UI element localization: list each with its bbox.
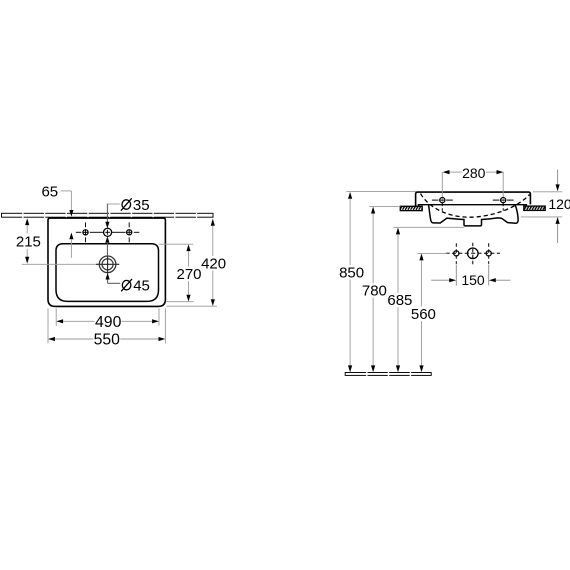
svg-text:490: 490 (95, 314, 122, 331)
svg-text:780: 780 (362, 283, 387, 300)
svg-text:850: 850 (339, 264, 364, 281)
svg-text:420: 420 (201, 256, 226, 273)
svg-text:120: 120 (548, 196, 570, 212)
svg-text:685: 685 (387, 292, 412, 309)
svg-text:560: 560 (411, 306, 436, 323)
svg-text:35: 35 (133, 197, 150, 214)
svg-text:280: 280 (462, 165, 486, 181)
svg-text:150: 150 (461, 272, 485, 288)
svg-text:215: 215 (16, 234, 41, 251)
svg-text:45: 45 (133, 278, 150, 295)
svg-text:550: 550 (94, 332, 121, 349)
svg-text:65: 65 (41, 184, 58, 201)
svg-text:270: 270 (176, 266, 201, 283)
